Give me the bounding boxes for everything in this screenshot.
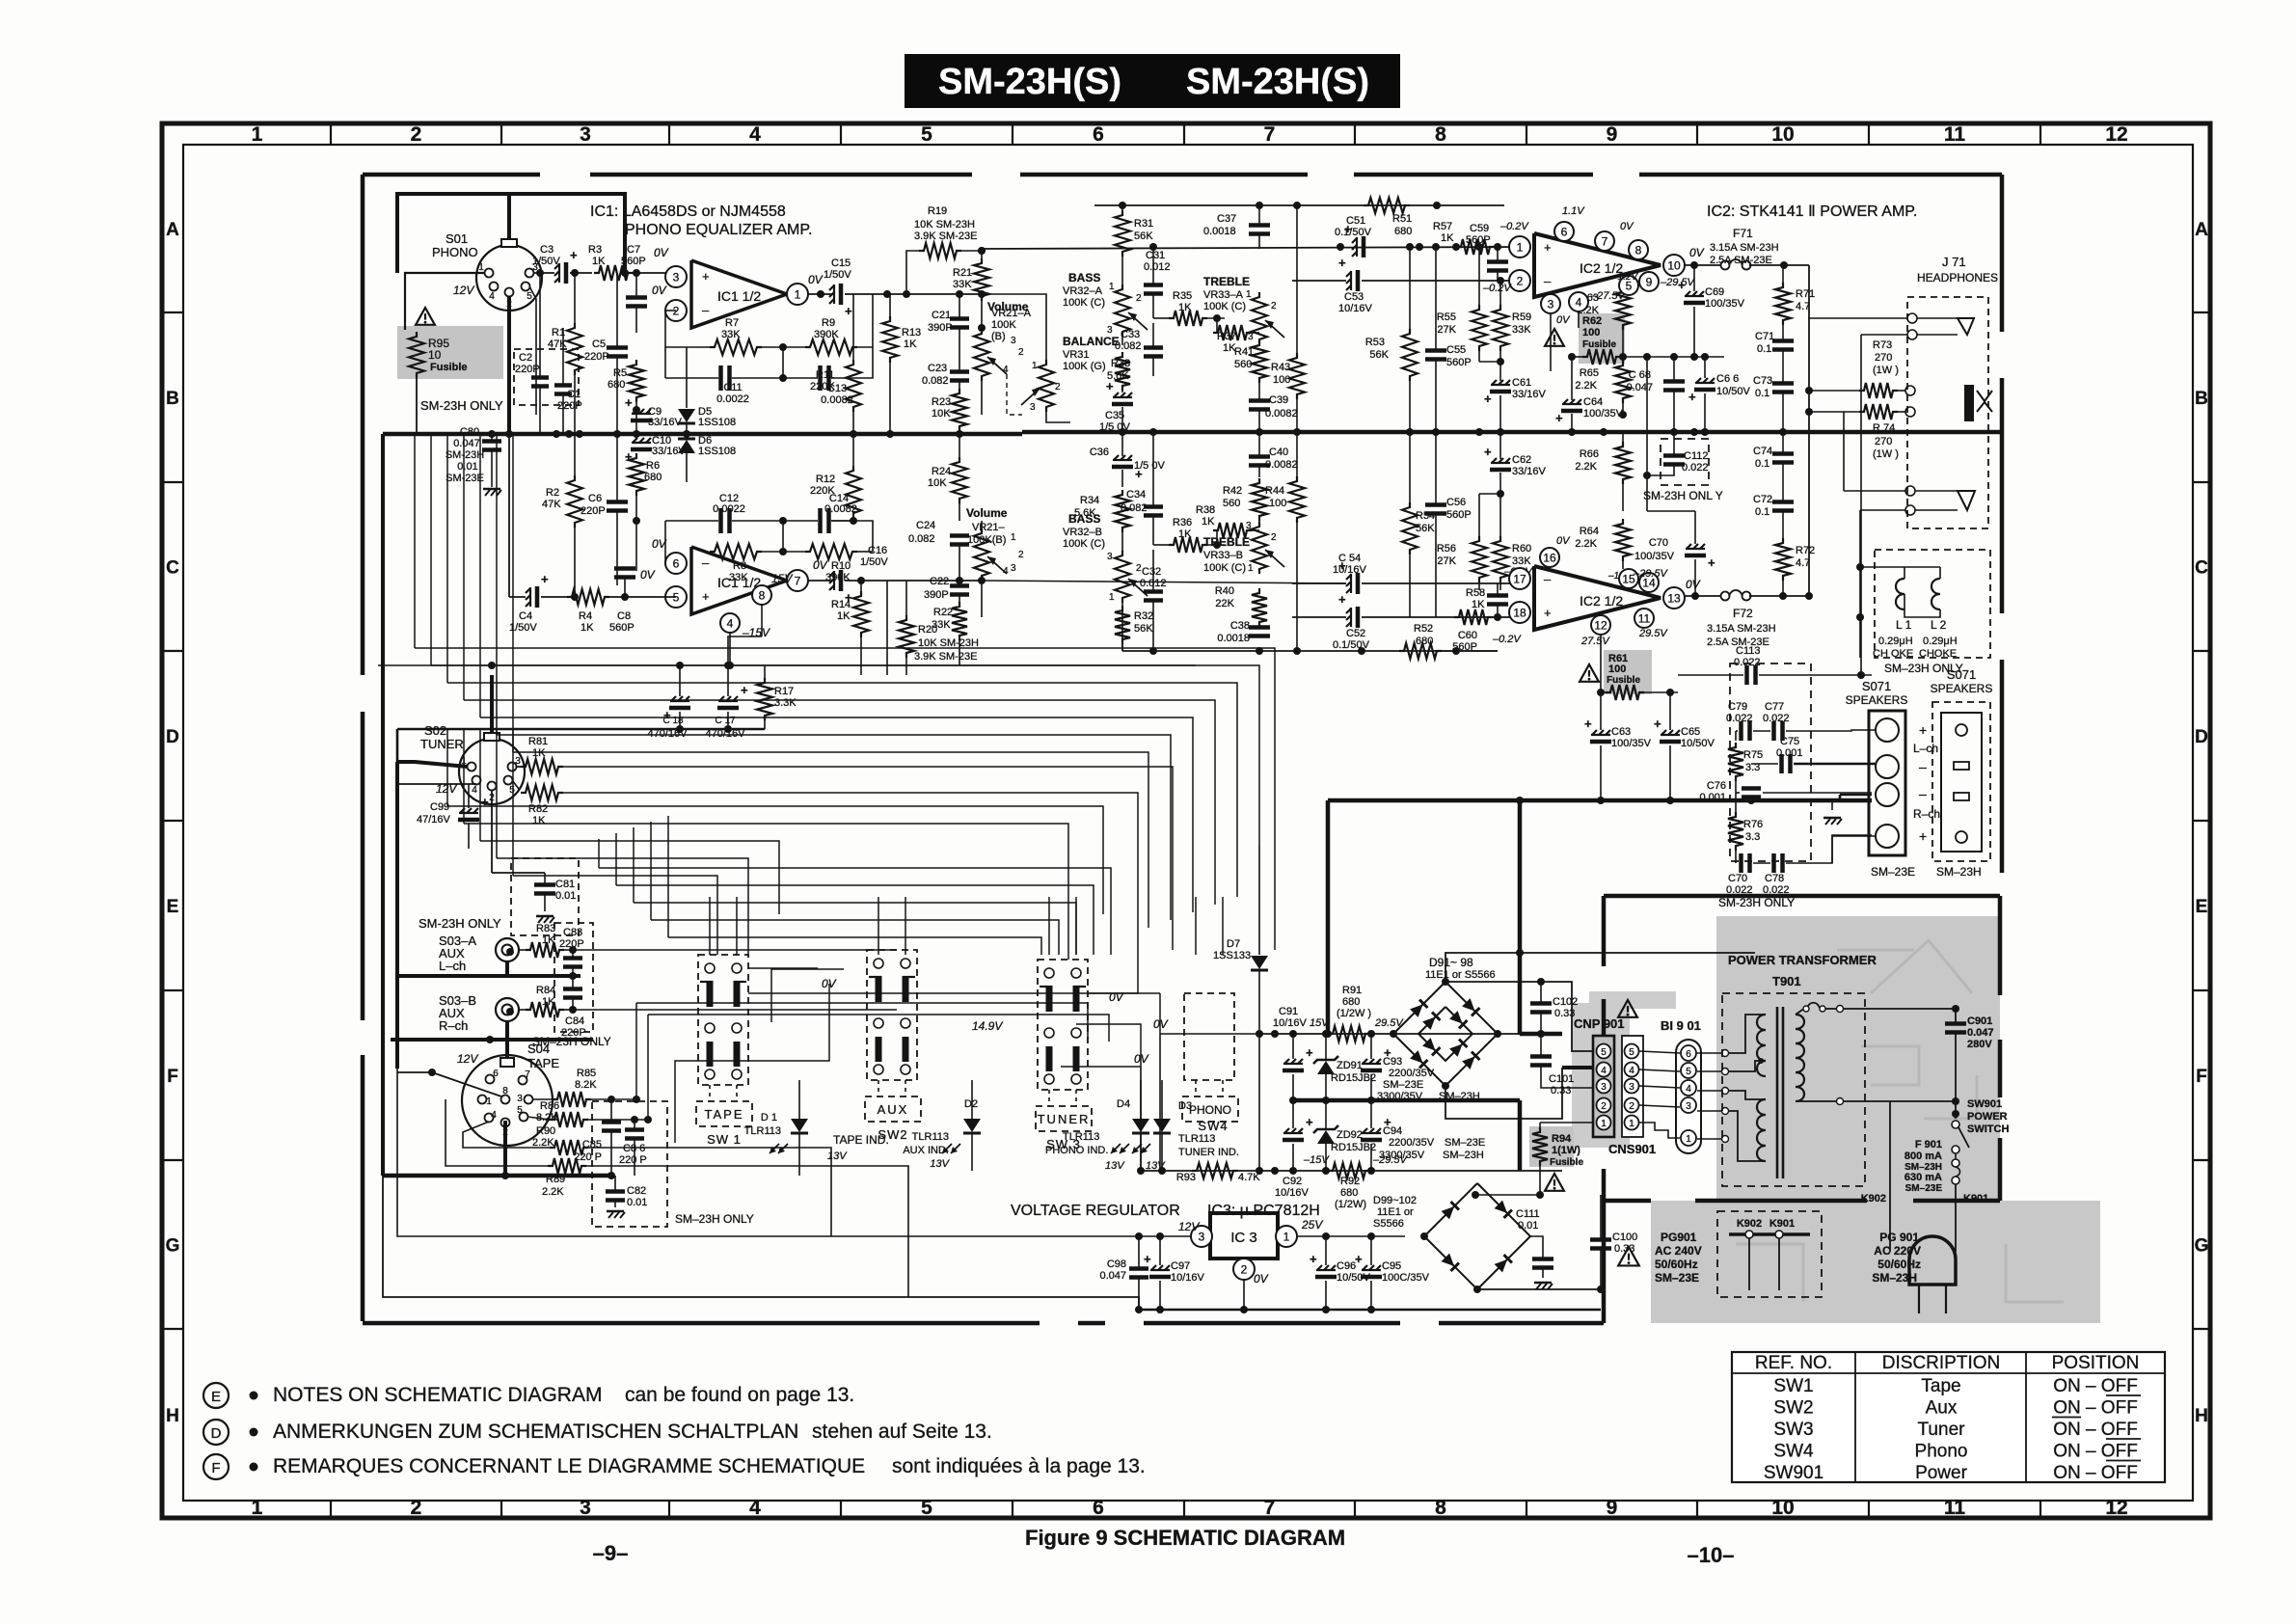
wire 0V run SW1	[748, 992, 1160, 994]
capacitor C79	[1739, 721, 1743, 741]
capacitor C63 electrolytic	[1592, 730, 1597, 735]
wire sw1 to 0V	[748, 967, 818, 969]
svg-text:0V: 0V	[813, 558, 828, 572]
wire aux R bus	[391, 1038, 593, 1042]
svg-text:56K: 56K	[1134, 623, 1153, 635]
svg-text:8: 8	[1435, 1497, 1446, 1519]
svg-text:+: +	[1708, 555, 1715, 570]
svg-text:7: 7	[1264, 1497, 1276, 1519]
svg-text:S04: S04	[527, 1042, 550, 1056]
svg-text:IC1 1/2: IC1 1/2	[717, 288, 761, 304]
svg-text:L–ch: L–ch	[439, 959, 466, 973]
svg-text:7: 7	[1602, 234, 1608, 248]
capacitor C6	[607, 500, 628, 504]
wire R90 run	[675, 1148, 831, 1236]
svg-text:+: +	[1144, 1252, 1151, 1266]
wire lattice run	[415, 648, 1275, 950]
svg-text:8: 8	[1435, 123, 1446, 146]
svg-text:3: 3	[1601, 1082, 1607, 1093]
svg-text:C85: C85	[582, 1139, 602, 1150]
svg-text:Aux: Aux	[1926, 1398, 1958, 1419]
svg-text:0V: 0V	[1686, 578, 1701, 591]
svg-text:R57: R57	[1433, 221, 1452, 232]
svg-text:C94: C94	[1383, 1125, 1402, 1137]
svg-text:C93: C93	[1383, 1056, 1402, 1068]
resistor R72	[1775, 538, 1791, 581]
wires CNS to BI	[1639, 1051, 1680, 1053]
bleed-through ghost lines	[1736, 940, 2064, 1302]
svg-text:1: 1	[1109, 282, 1115, 292]
svg-text:NOTES ON SCHEMATIC DIAGRAM: NOTES ON SCHEMATIC DIAGRAM	[273, 1384, 602, 1406]
svg-text:11: 11	[1944, 1497, 1966, 1519]
capacitor C51 electrolytic	[1352, 238, 1357, 243]
wire 12V rail into IC3	[1057, 1235, 1191, 1237]
svg-text:4: 4	[1003, 566, 1009, 577]
resistor R44	[1289, 476, 1305, 523]
svg-text:TAPE: TAPE	[527, 1056, 559, 1070]
resistor R13	[882, 316, 898, 363]
wire bridge2 bottom	[1477, 1288, 1601, 1290]
svg-text:0.047: 0.047	[1967, 1027, 1994, 1039]
svg-text:SW4: SW4	[1198, 1119, 1228, 1133]
svg-text:PG 901: PG 901	[1879, 1231, 1919, 1244]
svg-text:6: 6	[673, 556, 680, 570]
svg-text:+: +	[1584, 717, 1592, 731]
svg-text:5: 5	[517, 1105, 523, 1116]
pin 7 IC1	[787, 570, 808, 591]
svg-text:390P: 390P	[928, 322, 953, 334]
svg-text:220P: 220P	[581, 505, 606, 517]
svg-text:0V: 0V	[1556, 535, 1571, 547]
svg-text:10/50V: 10/50V	[1681, 738, 1715, 749]
wire lattice run	[480, 717, 1193, 912]
svg-text:2: 2	[1055, 382, 1061, 392]
svg-text:220P: 220P	[557, 400, 582, 412]
svg-text:560P: 560P	[1446, 509, 1472, 521]
pin 17 IC2	[1509, 568, 1530, 589]
svg-text:0.01: 0.01	[627, 1197, 647, 1208]
svg-text:+: +	[1555, 411, 1563, 425]
wire regulator 12V feed	[397, 1069, 1057, 1236]
svg-text:BALANCE: BALANCE	[1063, 335, 1120, 348]
svg-text:TLR113: TLR113	[912, 1131, 949, 1143]
svg-text:ZD92: ZD92	[1337, 1129, 1363, 1141]
svg-text:+: +	[625, 395, 633, 410]
svg-text:1: 1	[795, 287, 801, 301]
wire lattice left drops lower	[446, 729, 448, 806]
svg-text:2.2K: 2.2K	[1575, 538, 1597, 550]
svg-text:R2: R2	[546, 487, 559, 499]
capacitor C62 electrolytic	[1492, 458, 1497, 463]
svg-text:R55: R55	[1437, 311, 1456, 323]
fuse F71	[1684, 264, 1722, 266]
svg-text:L–ch: L–ch	[1913, 742, 1938, 755]
svg-text:11: 11	[1638, 611, 1651, 625]
capacitor C75	[1779, 754, 1784, 773]
main schematic border bottom	[363, 1321, 1040, 1326]
wire horizontal joins at switch level	[636, 1003, 1088, 1040]
svg-text:PG901: PG901	[1661, 1231, 1697, 1244]
svg-text:56K: 56K	[1369, 349, 1389, 361]
svg-text:IC3: μ PC7812H: IC3: μ PC7812H	[1207, 1203, 1320, 1219]
capacitor C96 electrolytic	[1317, 1265, 1322, 1270]
svg-text:100/35V: 100/35V	[1583, 408, 1624, 420]
svg-text:1SS108: 1SS108	[698, 446, 736, 457]
resistor R63	[1615, 287, 1631, 330]
svg-text:0V: 0V	[808, 273, 824, 286]
svg-text:2: 2	[1271, 532, 1277, 543]
svg-text:D99~102: D99~102	[1373, 1195, 1417, 1206]
resistor R83	[526, 942, 564, 958]
capacitor C59	[1487, 259, 1508, 264]
svg-text:2: 2	[411, 123, 422, 146]
svg-text:270: 270	[1875, 352, 1892, 364]
svg-text:Fusible: Fusible	[1550, 1157, 1583, 1168]
svg-text:C96: C96	[1337, 1260, 1356, 1272]
svg-text:POWER: POWER	[1967, 1111, 2008, 1123]
svg-text:1: 1	[1032, 361, 1038, 371]
svg-text:E: E	[211, 1389, 221, 1405]
svg-text:56K: 56K	[1416, 523, 1435, 534]
svg-text:2.2K: 2.2K	[1575, 461, 1597, 473]
svg-text:0.1/50V: 0.1/50V	[1333, 639, 1370, 651]
IC3 box	[1210, 1213, 1278, 1259]
svg-text:R5: R5	[613, 367, 627, 379]
wire output to C15	[808, 293, 831, 295]
svg-text:SPEAKERS: SPEAKERS	[1931, 682, 1993, 695]
svg-text:11E1 or: 11E1 or	[1377, 1206, 1414, 1218]
svg-text:680: 680	[1342, 996, 1360, 1008]
capacitor C92 electrolytic	[1284, 1128, 1289, 1133]
wire routing	[513, 876, 717, 955]
svg-text:100C/35V: 100C/35V	[1382, 1272, 1430, 1284]
svg-text:(B): (B)	[991, 331, 1006, 342]
resistor R9	[805, 339, 857, 355]
svg-text:4: 4	[472, 785, 477, 796]
wire lattice left drop	[430, 434, 432, 665]
svg-text:1: 1	[252, 123, 263, 146]
svg-text:0.1: 0.1	[1755, 388, 1769, 399]
svg-text:5: 5	[1686, 1067, 1691, 1077]
note E	[203, 1383, 229, 1408]
svg-text:C5: C5	[592, 338, 606, 350]
svg-text:10/16V: 10/16V	[1275, 1187, 1310, 1199]
svg-text:D: D	[211, 1425, 222, 1442]
svg-text:ON – OFF: ON – OFF	[2053, 1420, 2138, 1440]
op-amp IC1 1/2 lower	[691, 547, 787, 614]
svg-text:+: +	[845, 304, 852, 318]
svg-text:3: 3	[580, 1497, 591, 1519]
svg-text:2: 2	[1601, 1101, 1607, 1112]
wire lattice run	[431, 665, 1259, 845]
svg-text:1: 1	[1517, 240, 1524, 254]
capacitor C14	[818, 508, 823, 533]
svg-text:SM–23E: SM–23E	[1871, 865, 1915, 879]
svg-text:SM-23H ONLY: SM-23H ONLY	[420, 398, 503, 413]
svg-text:(1W ): (1W )	[1873, 448, 1899, 460]
wire left bus 1	[381, 434, 385, 1176]
svg-text:+: +	[1338, 256, 1346, 270]
capacitor C68	[1663, 379, 1685, 384]
wire from C15 to volume node	[887, 293, 982, 295]
svg-text:+: +	[541, 572, 549, 586]
capacitor C55	[1425, 348, 1446, 353]
svg-text:R92: R92	[1340, 1176, 1360, 1187]
svg-text:ON – OFF: ON – OFF	[2053, 1376, 2138, 1396]
svg-text:–: –	[1919, 759, 1927, 774]
ground bus phono upper	[383, 432, 1022, 437]
svg-text:560P: 560P	[609, 622, 635, 634]
zener ZD92	[1317, 1130, 1335, 1144]
rail 15V	[1259, 1033, 1520, 1035]
treble pot VR33-B	[1252, 522, 1267, 574]
svg-text:R43: R43	[1271, 362, 1290, 373]
svg-text:10K SM-23H: 10K SM-23H	[918, 637, 979, 649]
svg-text:0.1: 0.1	[1757, 343, 1771, 355]
svg-text:C77: C77	[1765, 701, 1784, 713]
resistor R11	[846, 360, 861, 412]
svg-text:100K (C): 100K (C)	[1203, 301, 1246, 312]
svg-text:33K: 33K	[721, 329, 741, 340]
svg-text:8: 8	[759, 588, 766, 602]
thick feed 29.5V vertical	[1518, 800, 1523, 1035]
svg-text:R53: R53	[1365, 337, 1385, 348]
svg-text:13: 13	[1667, 591, 1681, 605]
capacitor C36 electrolytic	[1114, 455, 1119, 460]
svg-text:560P: 560P	[1446, 357, 1472, 368]
wire switch feed	[878, 897, 879, 955]
svg-text:100: 100	[1608, 663, 1626, 675]
svg-text:R58: R58	[1466, 587, 1485, 599]
capacitor C37	[1249, 223, 1270, 228]
svg-text:SW4: SW4	[1773, 1442, 1814, 1462]
svg-text:C33: C33	[1121, 329, 1140, 340]
wire pin3 node	[533, 272, 554, 274]
svg-text:C73: C73	[1753, 375, 1772, 387]
svg-text:–0.2V: –0.2V	[1492, 634, 1522, 645]
svg-text:1K: 1K	[532, 815, 546, 826]
zener ZD91	[1317, 1061, 1335, 1074]
fuse F901	[1952, 1146, 1959, 1153]
svg-text:1(1W): 1(1W)	[1552, 1145, 1580, 1156]
wire bus to sleeve area	[1985, 430, 2000, 435]
resistor R42	[1252, 478, 1267, 521]
svg-text:C6: C6	[588, 493, 602, 504]
chokes L1 L2 dashed box	[1875, 550, 1990, 658]
svg-text:10/50V: 10/50V	[1716, 386, 1751, 397]
svg-text:27.5V: 27.5V	[1580, 636, 1610, 647]
svg-text:100: 100	[1273, 374, 1290, 386]
resistor R37	[1213, 325, 1252, 340]
capacitor C91 electrolytic	[1284, 1059, 1289, 1064]
svg-text:0.001: 0.001	[1776, 747, 1803, 759]
svg-text:R42: R42	[1223, 485, 1242, 497]
pin 12 IC2	[1591, 615, 1610, 635]
svg-text:RD15JB2: RD15JB2	[1331, 1072, 1376, 1084]
svg-text:0.082: 0.082	[1121, 502, 1148, 514]
wire S04 top	[505, 1040, 509, 1058]
svg-text:+: +	[1306, 1045, 1313, 1060]
svg-text:1/50V: 1/50V	[532, 256, 560, 267]
svg-text:+: +	[702, 269, 710, 284]
svg-text:C79: C79	[1728, 701, 1747, 713]
svg-text:1/50V: 1/50V	[860, 556, 888, 568]
svg-text:0.082: 0.082	[922, 375, 949, 387]
svg-text:10: 10	[1771, 1497, 1794, 1519]
wire R12 to C14 node	[831, 520, 853, 522]
svg-text:7: 7	[525, 1069, 530, 1080]
bottom rail tone	[1122, 650, 1498, 652]
capacitor C95 electrolytic	[1363, 1265, 1367, 1270]
svg-text:stehen auf Seite 13.: stehen auf Seite 13.	[812, 1421, 992, 1443]
pin 6 IC2	[1554, 222, 1574, 241]
svg-text:SM-23H ONLY: SM-23H ONLY	[1718, 896, 1795, 909]
svg-text:R81: R81	[528, 736, 548, 747]
svg-text:1K: 1K	[592, 256, 606, 267]
connector S01 PHONO	[476, 245, 542, 311]
svg-text:1: 1	[1283, 1230, 1290, 1243]
svg-text:+: +	[1919, 828, 1927, 844]
wire nested tape monitor runs	[599, 868, 1111, 955]
svg-text:12V: 12V	[1178, 1220, 1200, 1233]
wire volume wiper to bass	[1007, 374, 1022, 415]
resistor R41	[1252, 340, 1267, 383]
svg-text:100/35V: 100/35V	[1634, 551, 1675, 562]
svg-text:2.2K: 2.2K	[542, 1186, 564, 1198]
wire S04 pin2 down	[503, 1121, 507, 1176]
svg-text:3.9K SM-23E: 3.9K SM-23E	[914, 230, 977, 242]
svg-text:C4: C4	[519, 610, 532, 622]
wire switch feed	[1195, 897, 1197, 955]
capacitor C17 electrolytic	[727, 665, 729, 696]
svg-text:0V: 0V	[1620, 221, 1634, 232]
svg-text:R64: R64	[1580, 526, 1599, 537]
resistor R33	[1115, 352, 1130, 391]
svg-text:9: 9	[1607, 1497, 1618, 1519]
svg-text:TUNER: TUNER	[420, 737, 464, 751]
capacitor C53 electrolytic	[1346, 272, 1351, 277]
diode D6	[678, 440, 695, 453]
svg-text:VR33–B: VR33–B	[1203, 550, 1243, 561]
svg-text:SW1: SW1	[1773, 1376, 1813, 1396]
svg-text:C76: C76	[1707, 780, 1726, 792]
svg-text:2: 2	[1136, 293, 1142, 304]
resistor R24	[952, 457, 967, 503]
svg-text:10: 10	[428, 348, 442, 362]
svg-text:C53: C53	[1344, 291, 1364, 303]
pin 16 IC2	[1540, 548, 1559, 567]
svg-text:3: 3	[1248, 332, 1254, 342]
svg-text:6: 6	[1093, 1497, 1104, 1519]
svg-text:C: C	[2195, 558, 2208, 579]
capacitor C84	[563, 987, 582, 991]
svg-text:C63: C63	[1611, 726, 1631, 738]
svg-text:C52: C52	[1346, 628, 1365, 639]
svg-text:25V: 25V	[1301, 1218, 1323, 1232]
capacitor C74	[1772, 451, 1794, 456]
resistor R74	[1859, 404, 1898, 420]
svg-text:22K: 22K	[1215, 598, 1234, 609]
svg-text:SM–23E: SM–23E	[1445, 1137, 1485, 1149]
svg-text:3.15A SM-23H: 3.15A SM-23H	[1707, 623, 1776, 635]
svg-text:+: +	[1355, 1252, 1363, 1266]
svg-text:VOLTAGE REGULATOR: VOLTAGE REGULATOR	[1011, 1203, 1180, 1219]
svg-text:R75: R75	[1743, 749, 1763, 761]
svg-text:0.047: 0.047	[1626, 382, 1653, 393]
svg-text:C102: C102	[1553, 996, 1578, 1008]
svg-text:3.9K SM-23E: 3.9K SM-23E	[914, 651, 977, 663]
svg-text:D: D	[2195, 727, 2208, 747]
wire L-ch to switches	[573, 949, 897, 951]
svg-text:7: 7	[1264, 123, 1276, 146]
wire 15V to left	[1160, 1033, 1259, 1035]
svg-text:K902: K902	[1737, 1218, 1762, 1230]
svg-text:R90: R90	[536, 1125, 555, 1137]
svg-text:0V: 0V	[1134, 1052, 1149, 1066]
svg-text:3: 3	[1686, 1101, 1691, 1112]
svg-text:R71: R71	[1796, 288, 1815, 300]
svg-text:C31: C31	[1146, 250, 1165, 261]
svg-text:+: +	[1484, 392, 1492, 406]
svg-text:27K: 27K	[1437, 324, 1456, 336]
resistor R43	[1289, 353, 1305, 399]
capacitor C34	[1144, 504, 1163, 509]
svg-text:TREBLE: TREBLE	[1203, 275, 1250, 288]
svg-text:C65: C65	[1681, 726, 1700, 738]
svg-text:TUNER: TUNER	[1038, 1112, 1091, 1126]
wire S01 pin5 to C4	[529, 286, 536, 415]
shaded area PG901 bottom strip	[1651, 1201, 2100, 1323]
capacitor C40	[1249, 454, 1270, 459]
svg-text:BI 9 01: BI 9 01	[1661, 1018, 1701, 1033]
svg-text:C56: C56	[1446, 497, 1466, 508]
svg-text:C16: C16	[868, 545, 887, 556]
wire lattice run	[447, 683, 1237, 897]
svg-text:1: 1	[1246, 289, 1252, 300]
svg-text:VR21–A: VR21–A	[991, 308, 1032, 319]
svg-text:3.3K: 3.3K	[774, 697, 797, 709]
wire switch feed	[1222, 897, 1224, 955]
wire S02 pin4	[397, 783, 476, 785]
connector CNS901	[1622, 1036, 1643, 1137]
capacitor C112 dashed box SM-23H only	[1661, 439, 1709, 485]
svg-text:C71: C71	[1755, 331, 1774, 342]
svg-text:C38: C38	[1230, 620, 1250, 632]
resistor R2	[567, 475, 582, 528]
svg-text:1K: 1K	[837, 610, 851, 622]
svg-text:33/16V: 33/16V	[1512, 389, 1547, 400]
title bar SM-23H(S)	[905, 54, 1400, 108]
svg-text:AUX: AUX	[878, 1102, 909, 1117]
svg-text:R44: R44	[1265, 485, 1284, 497]
resistor R35	[1169, 311, 1207, 326]
svg-text:10K SM-23H: 10K SM-23H	[914, 219, 975, 230]
svg-text:100K: 100K	[991, 319, 1016, 331]
resistor R53	[1402, 329, 1418, 381]
svg-text:–1.2V: –1.2V	[1611, 272, 1638, 283]
diode D7 1SS133	[1258, 845, 1260, 955]
svg-text:R4: R4	[579, 610, 592, 622]
svg-text:SM-23H ONLY: SM-23H ONLY	[419, 916, 501, 931]
svg-text:0V: 0V	[1689, 246, 1705, 259]
resistor R12	[846, 466, 861, 518]
svg-text:560: 560	[1223, 498, 1240, 509]
svg-text:100: 100	[1582, 327, 1600, 338]
wire lower rail to C54	[982, 581, 1346, 583]
svg-text:C84: C84	[565, 1015, 584, 1027]
resistor R54	[1402, 502, 1418, 555]
svg-text:SM-23H(S): SM-23H(S)	[1186, 62, 1369, 102]
